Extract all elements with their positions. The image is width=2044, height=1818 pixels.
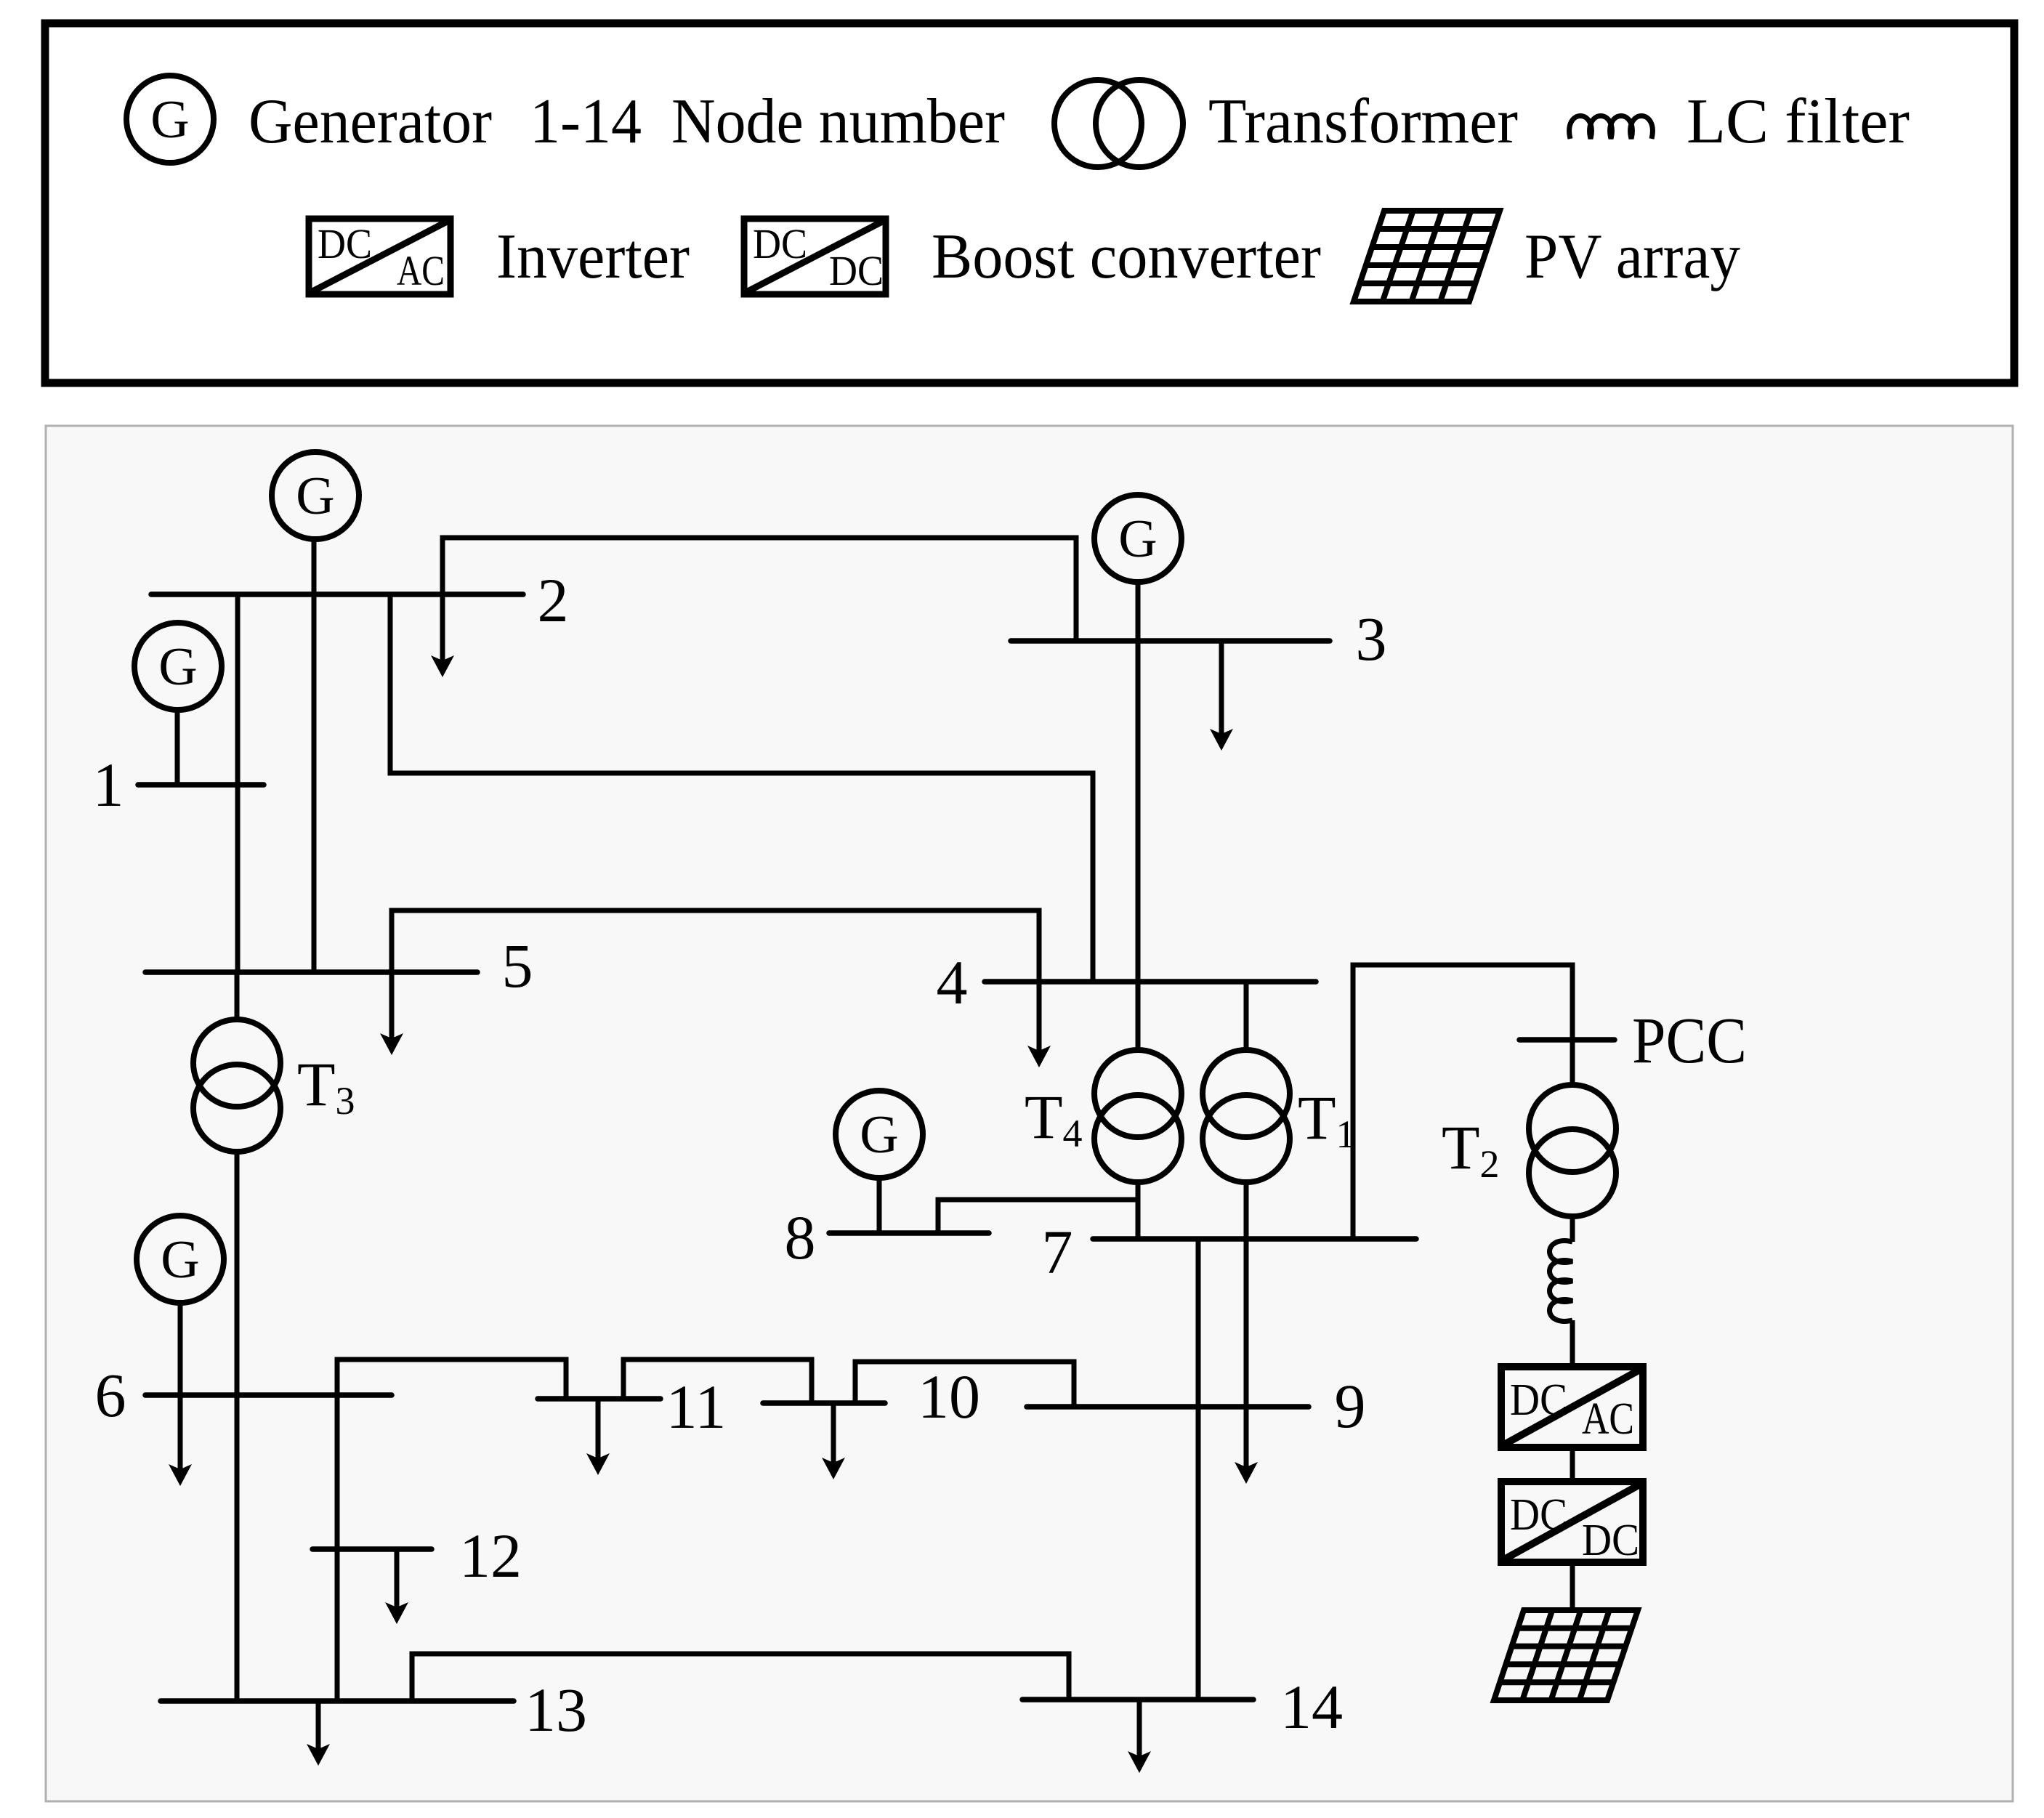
svg-text:G: G — [161, 1230, 199, 1290]
wire line 11-10 — [623, 1360, 812, 1403]
svg-text:PV array: PV array — [1524, 222, 1740, 292]
wire line 6-11 — [337, 1360, 566, 1399]
svg-text:11: 11 — [666, 1372, 727, 1442]
generator G at bus 8 — [836, 1091, 923, 1178]
load arrow at bus 12 — [385, 1549, 408, 1624]
legend generator symbol — [126, 76, 214, 163]
legend box — [45, 23, 2014, 383]
svg-text:DC: DC — [318, 220, 372, 267]
transformer T2 — [1529, 1085, 1616, 1216]
svg-text:DC: DC — [1582, 1516, 1639, 1565]
wire bus4 to T1 — [1244, 982, 1249, 1051]
load arrow at bus 6 — [169, 1395, 192, 1486]
svg-text:Node number: Node number — [671, 86, 1005, 157]
svg-text:G: G — [158, 637, 197, 697]
svg-text:LC filter: LC filter — [1686, 86, 1910, 157]
wire line 6-12-13 — [335, 1395, 340, 1701]
svg-text:Generator: Generator — [249, 86, 492, 157]
legend boost converter symbol — [744, 219, 886, 294]
node PCC bar — [1519, 1037, 1615, 1043]
wire T1 to bus7 — [1244, 1181, 1249, 1239]
wire line 7-PCC — [1353, 965, 1572, 1239]
bus 1 — [138, 782, 264, 788]
wire generator G1 lead — [175, 710, 180, 785]
svg-text:G: G — [296, 466, 334, 526]
svg-text:1: 1 — [93, 750, 124, 820]
wire bus2 riser / line 2-3 — [443, 538, 1076, 641]
transformer T4 — [1094, 1050, 1181, 1182]
transformer T3 — [193, 1019, 280, 1152]
svg-text:2: 2 — [538, 565, 569, 635]
bus 11 — [538, 1396, 661, 1402]
wire line 10-9 — [855, 1362, 1074, 1407]
load arrow at bus 10 — [822, 1403, 845, 1479]
svg-text:G: G — [150, 90, 189, 150]
generator G at bus 2 — [272, 452, 359, 539]
bus 4 — [985, 979, 1316, 985]
svg-text:PCC: PCC — [1632, 1005, 1747, 1077]
diagram panel — [46, 426, 2013, 1801]
wire line 8-7 — [938, 1200, 1138, 1233]
wire PCC to T2 — [1570, 1040, 1575, 1086]
bus 14 — [1022, 1697, 1253, 1702]
wire inverter to boost converter — [1570, 1447, 1575, 1482]
wire line 2-4 — [390, 594, 1093, 982]
svg-text:3: 3 — [1356, 604, 1387, 674]
inverter DC/AC — [1501, 1367, 1643, 1447]
svg-text:4: 4 — [937, 948, 968, 1017]
bus 2 — [151, 591, 523, 597]
legend inverter symbol — [309, 219, 451, 294]
bus 12 — [312, 1546, 432, 1552]
generator G at bus 1 — [134, 623, 222, 710]
svg-text:14: 14 — [1280, 1672, 1343, 1742]
bus 9 — [1027, 1404, 1309, 1410]
generator G at bus 3 — [1094, 495, 1181, 582]
load arrow at bus 2 — [431, 594, 454, 677]
svg-text:6: 6 — [95, 1360, 126, 1430]
svg-text:AC: AC — [397, 247, 445, 294]
svg-text:G: G — [860, 1105, 898, 1165]
bus 5 — [145, 969, 477, 975]
svg-text:10: 10 — [918, 1362, 980, 1431]
wire generator G3 lead through bus3 and bus4 to T4 — [1136, 582, 1141, 1051]
svg-text:DC: DC — [1510, 1490, 1567, 1540]
wire boost converter to PV array — [1570, 1562, 1575, 1610]
wire generator G8 lead — [877, 1178, 882, 1233]
wire bus1-bus2-bus5 vertical — [235, 594, 241, 972]
svg-text:7: 7 — [1042, 1217, 1073, 1287]
wire line 7-9-14 — [1196, 1239, 1201, 1700]
svg-text:Inverter: Inverter — [496, 222, 690, 292]
transformer T1 — [1203, 1050, 1290, 1182]
svg-text:DC: DC — [1510, 1375, 1567, 1425]
load arrow at bus 14 — [1128, 1700, 1151, 1773]
bus 6 — [145, 1392, 392, 1398]
LC filter coil — [1550, 1241, 1573, 1322]
wire generator G6 lead — [178, 1303, 183, 1395]
legend LC filter symbol — [1570, 116, 1653, 140]
load arrow at bus 11 — [586, 1399, 610, 1475]
wire line 5-4 — [392, 910, 1039, 982]
svg-text:8: 8 — [785, 1203, 816, 1272]
wire T4 to bus7 — [1136, 1181, 1141, 1239]
svg-text:1-14: 1-14 — [530, 86, 642, 157]
svg-text:12: 12 — [459, 1521, 522, 1591]
load arrow at bus 3 — [1210, 641, 1233, 751]
PV array — [1494, 1610, 1638, 1700]
wire T3 to bus13 — [235, 1150, 240, 1701]
bus 7 — [1093, 1236, 1416, 1242]
svg-text:5: 5 — [502, 931, 533, 1001]
wire T2 to LC filter — [1570, 1215, 1575, 1242]
svg-text:DC: DC — [829, 247, 884, 294]
bus 10 — [763, 1400, 885, 1406]
bus 8 — [829, 1230, 989, 1236]
wire LC filter to inverter — [1570, 1320, 1575, 1367]
wire G(top) to bus2 to bus5 — [312, 539, 317, 972]
load arrow at bus 4 — [1027, 982, 1051, 1067]
load arrow at bus 9 — [1235, 1239, 1258, 1484]
bus 3 — [1011, 638, 1330, 644]
legend PV array symbol — [1354, 211, 1500, 302]
svg-text:13: 13 — [525, 1675, 587, 1745]
generator G at bus 6 — [137, 1216, 224, 1303]
load arrow at bus 13 — [307, 1701, 330, 1766]
svg-text:Transformer: Transformer — [1208, 86, 1518, 157]
wire line 13-14 — [412, 1654, 1069, 1701]
bus 13 — [161, 1698, 514, 1704]
svg-text:9: 9 — [1335, 1371, 1366, 1441]
wire bus5 to T3 — [235, 972, 240, 1021]
svg-text:G: G — [1118, 509, 1157, 569]
boost converter DC/DC — [1501, 1482, 1643, 1565]
load arrow at bus 5 — [380, 972, 403, 1055]
svg-text:Boost converter: Boost converter — [932, 222, 1321, 292]
legend transformer symbol — [1054, 80, 1142, 167]
svg-text:AC: AC — [1582, 1394, 1634, 1444]
svg-text:DC: DC — [753, 220, 807, 267]
